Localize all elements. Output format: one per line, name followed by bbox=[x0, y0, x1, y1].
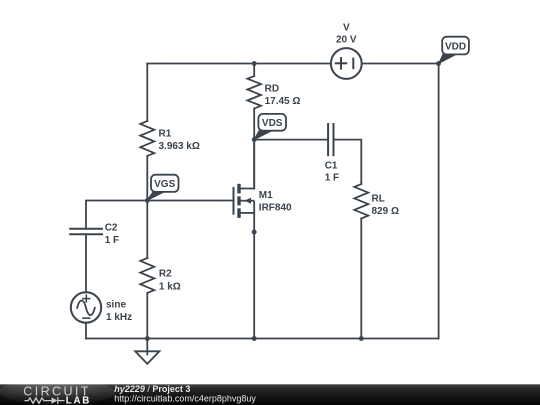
logo wire zigzag and diode bbox=[25, 397, 65, 404]
wire RD top lead bbox=[253, 64, 255, 77]
svg-text:http://circuitlab.com/c4erp8ph: http://circuitlab.com/c4erp8phvg8uy bbox=[114, 393, 256, 403]
node VDS bbox=[252, 137, 257, 142]
wire left rail upper bbox=[146, 64, 148, 122]
wire RD bottom to VDS node bbox=[253, 109, 255, 140]
capacitor C2 bbox=[70, 229, 102, 235]
svg-text:829 Ω: 829 Ω bbox=[372, 206, 399, 217]
transistor M1 bbox=[234, 140, 255, 218]
svg-text:RL: RL bbox=[372, 193, 385, 204]
node ground junction bbox=[145, 336, 150, 341]
svg-text:1 kΩ: 1 kΩ bbox=[159, 281, 181, 292]
node VDD bbox=[436, 61, 441, 66]
resistor RD bbox=[247, 76, 261, 109]
resistor R2 bbox=[140, 258, 154, 293]
wire top rail to source bbox=[254, 63, 331, 65]
svg-text:1 kHz: 1 kHz bbox=[106, 312, 132, 323]
wire VDS node to C1 bbox=[254, 139, 328, 141]
svg-text:1 F: 1 F bbox=[325, 173, 339, 184]
wire M1 source to bottom rail bbox=[253, 213, 255, 339]
wire right rail bbox=[438, 64, 440, 339]
sine source bbox=[71, 292, 101, 322]
wire top rail left segment bbox=[147, 63, 254, 65]
wire VGS node to C2 bbox=[86, 201, 147, 229]
node junction top of RD bbox=[252, 61, 257, 66]
svg-text:sine: sine bbox=[106, 300, 126, 311]
resistor RL bbox=[354, 184, 368, 219]
wire VGS node to gate bbox=[147, 200, 233, 202]
capacitor C1 bbox=[328, 124, 333, 155]
wire source to VDD node bbox=[362, 63, 439, 65]
wire C2 to sine source bbox=[85, 234, 87, 292]
svg-text:3.963 kΩ: 3.963 kΩ bbox=[159, 141, 200, 152]
wire RL bottom lead bbox=[360, 219, 362, 339]
wire R2 top lead bbox=[146, 201, 148, 259]
node VGS bbox=[145, 198, 150, 203]
svg-text:VGS: VGS bbox=[154, 179, 175, 190]
svg-text:R2: R2 bbox=[159, 269, 172, 280]
resistor R1 bbox=[140, 121, 154, 156]
svg-text:1 F: 1 F bbox=[105, 235, 119, 246]
voltage source V bbox=[331, 48, 362, 79]
svg-text:20 V: 20 V bbox=[336, 35, 357, 46]
wire VDS node to drain bbox=[253, 140, 255, 189]
svg-text:VDS: VDS bbox=[262, 118, 283, 129]
node bottom middle junction bbox=[252, 336, 257, 341]
svg-text:M1: M1 bbox=[259, 190, 273, 201]
flag VDD bbox=[439, 37, 469, 64]
svg-text:17.45 Ω: 17.45 Ω bbox=[265, 96, 301, 107]
svg-text:IRF840: IRF840 bbox=[259, 203, 292, 214]
svg-text:C1: C1 bbox=[325, 161, 338, 172]
wire R2 bottom lead bbox=[146, 293, 148, 339]
svg-text:R1: R1 bbox=[159, 129, 172, 140]
ground bbox=[135, 339, 159, 364]
svg-text:LAB: LAB bbox=[66, 396, 91, 405]
wire sine source to bottom rail bbox=[85, 323, 87, 339]
svg-text:RD: RD bbox=[265, 84, 279, 95]
svg-text:C2: C2 bbox=[105, 223, 118, 234]
node M1 source junction bbox=[252, 230, 257, 235]
svg-text:V: V bbox=[343, 23, 350, 34]
wire R1 to VGS node bbox=[146, 156, 148, 201]
node bottom RL junction bbox=[359, 336, 364, 341]
wire bottom rail bbox=[86, 338, 439, 340]
flag VDS bbox=[254, 114, 286, 140]
footer bar bbox=[0, 379, 540, 405]
flag VGS bbox=[147, 175, 179, 201]
svg-text:VDD: VDD bbox=[445, 41, 466, 52]
wire C1 to RL top bbox=[334, 140, 362, 184]
